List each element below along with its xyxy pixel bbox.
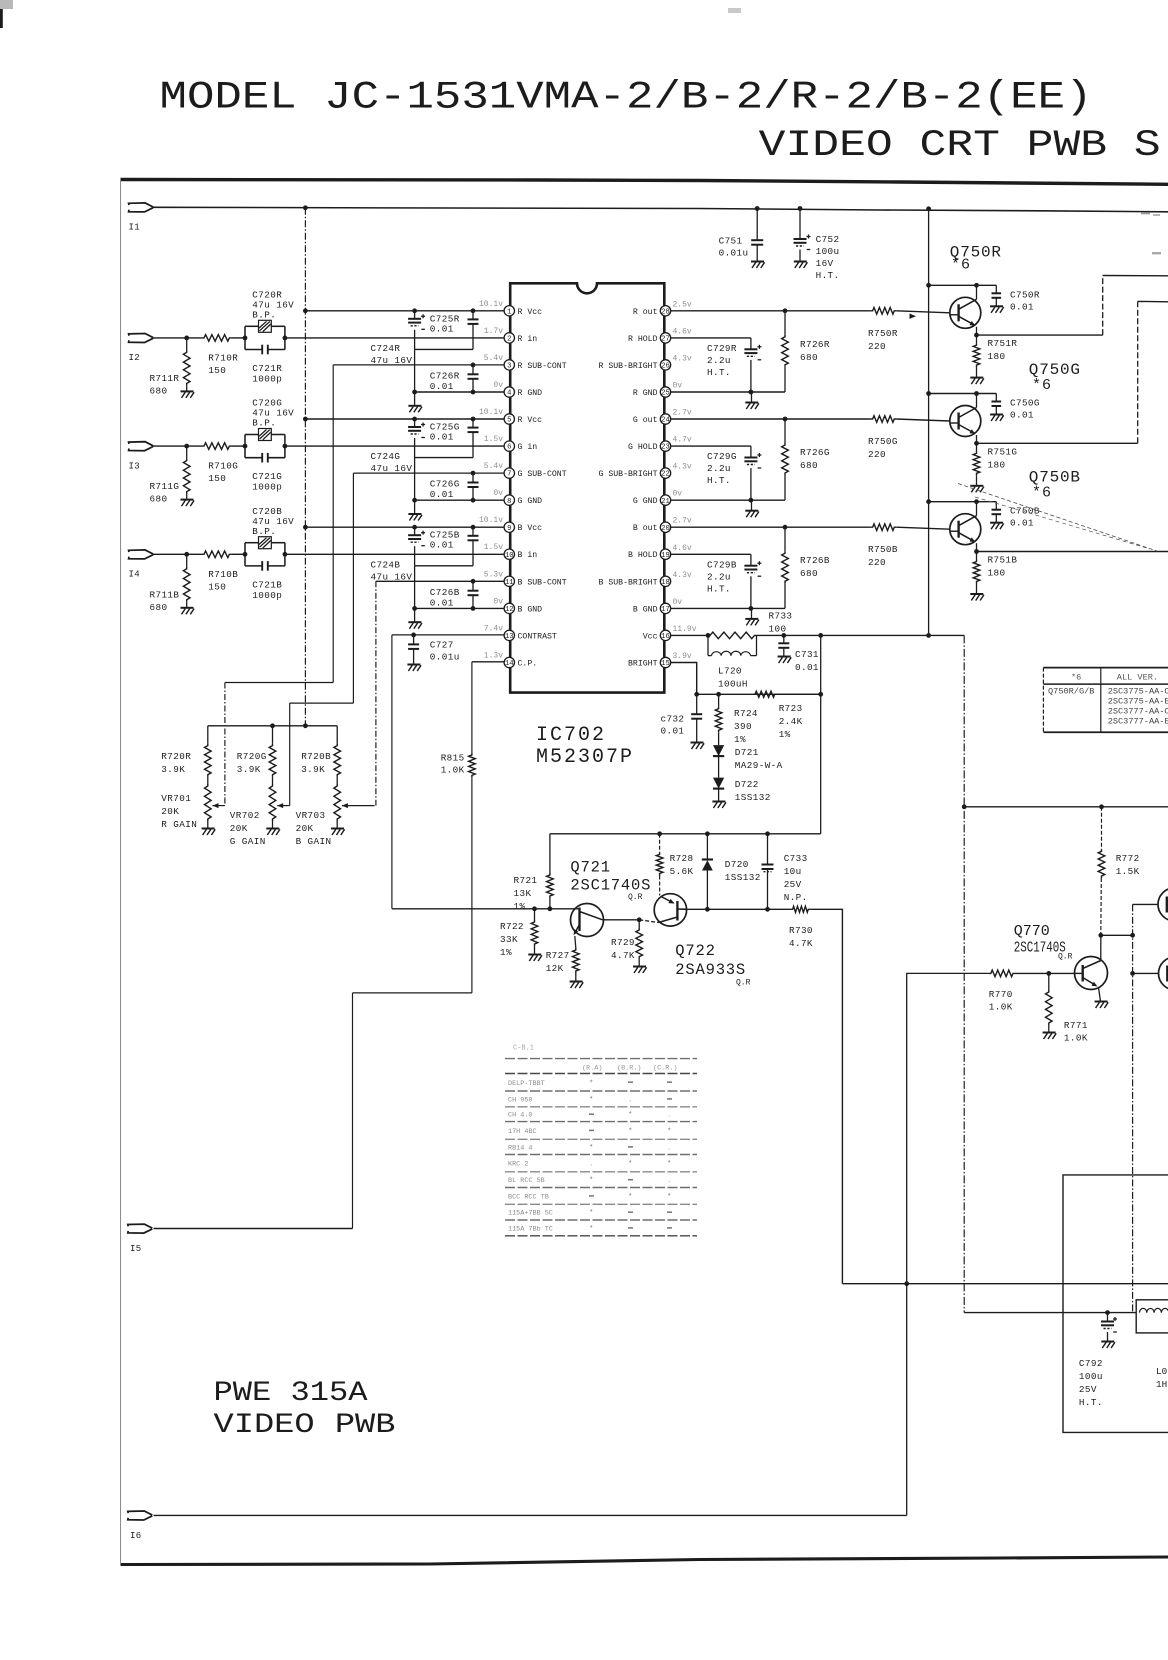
label C750R: [1010, 289, 1040, 312]
label C724R: [371, 343, 413, 366]
svg-text:R720R: R720R: [161, 751, 191, 762]
svg-text:20K: 20K: [230, 823, 248, 834]
wire Q770 input: [907, 973, 989, 1283]
svg-text:R710R: R710R: [208, 352, 238, 363]
svg-text:4.3v: 4.3v: [673, 354, 692, 363]
svg-text:100uH: 100uH: [718, 679, 748, 690]
pin 4 R GND: [504, 387, 514, 398]
voltage label pin13: [484, 624, 503, 633]
svg-text:5.4v: 5.4v: [484, 462, 503, 471]
wire C.P. horizontal: [353, 992, 472, 994]
wire I5: [154, 1228, 353, 1230]
junction I1/C752: [798, 206, 803, 211]
junction Vcc/heater rail: [962, 804, 967, 809]
table cell 2SC3775-AA-E: [1108, 697, 1168, 707]
svg-text:150: 150: [208, 365, 226, 376]
bottom border line: [121, 1557, 1168, 1565]
svg-text:R726B: R726B: [800, 555, 830, 566]
ground G output: [745, 511, 759, 518]
pin 10 B in: [504, 549, 514, 560]
svg-text:*: *: [628, 1112, 633, 1120]
svg-text:R GND: R GND: [633, 389, 658, 398]
svg-text:C-B.1: C-B.1: [513, 1045, 534, 1053]
svg-text:R750R: R750R: [868, 328, 898, 339]
wire R node to gnd pin: [414, 349, 416, 392]
svg-text:D721: D721: [735, 747, 759, 758]
svg-text:(R.A): (R.A): [582, 1065, 602, 1073]
svg-text:C724G: C724G: [371, 451, 401, 462]
wire I3 input: [153, 445, 202, 447]
ground R751B: [970, 594, 984, 601]
svg-text:20: 20: [661, 525, 670, 533]
svg-text:6: 6: [507, 444, 511, 452]
pin label B GND: [633, 605, 658, 614]
pin 1 R Vcc: [504, 306, 514, 317]
svg-text:1SS132: 1SS132: [725, 872, 761, 883]
junction C792: [1105, 1310, 1110, 1315]
svg-text:B SUB-CONT: B SUB-CONT: [518, 578, 567, 587]
resistor R710G: [202, 443, 231, 450]
transistor Q750R: [950, 285, 981, 335]
capacitor C726B: [468, 581, 479, 608]
svg-text:0.01: 0.01: [1010, 410, 1034, 421]
svg-text:100u: 100u: [816, 246, 840, 257]
junction rail/R728: [657, 831, 662, 836]
resistor R750R: [871, 308, 897, 315]
voltage label pin28: [673, 300, 692, 309]
svg-text:*: *: [589, 1225, 594, 1233]
svg-text:R750G: R750G: [868, 436, 898, 447]
svg-text:*: *: [667, 1193, 672, 1201]
svg-text:B SUB-BRIGHT: B SUB-BRIGHT: [599, 578, 658, 587]
wire G gnd stub: [414, 500, 416, 514]
connector I4: [129, 550, 154, 559]
svg-text:I6: I6: [130, 1531, 141, 1541]
junction C729G bottom: [749, 498, 754, 503]
svg-text:25: 25: [661, 390, 670, 398]
voltage label pin25: [673, 382, 683, 391]
svg-text:H.T.: H.T.: [816, 270, 840, 281]
connector I2: [129, 334, 154, 343]
pin label G SUB-BRIGHT: [599, 470, 658, 479]
label R751R: [988, 338, 1018, 362]
voltage label pin11: [484, 570, 503, 579]
label R711B: [150, 589, 180, 613]
svg-text:G SUB-CONT: G SUB-CONT: [518, 470, 567, 479]
svg-text:2.2u: 2.2u: [707, 355, 731, 366]
svg-text:9: 9: [507, 525, 511, 533]
pin 16 Vcc: [660, 630, 670, 641]
label I6: [130, 1531, 141, 1541]
wire R Vcc pin feed: [305, 310, 504, 312]
capacitor C724G electrolytic: [408, 419, 425, 458]
wire R750B to base: [896, 527, 950, 529]
svg-text:VIDEO PWB: VIDEO PWB: [214, 1410, 396, 1441]
svg-text:1%: 1%: [514, 901, 526, 912]
svg-text:BCC RCC TB: BCC RCC TB: [508, 1193, 549, 1201]
svg-text:*: *: [589, 1080, 594, 1088]
svg-text:100u: 100u: [1079, 1371, 1103, 1382]
label C729G: [707, 451, 737, 486]
label VR701: [161, 793, 197, 830]
svg-text:1H: 1H: [1156, 1379, 1167, 1390]
voltage label pin1: [479, 300, 503, 309]
junction R711R tap: [184, 336, 189, 341]
svg-text:2SC3777-AA-O: 2SC3777-AA-O: [1108, 707, 1168, 717]
wire to upper CRT transistor: [1133, 903, 1159, 905]
voltage label pin16: [673, 625, 697, 634]
label R751G: [988, 446, 1018, 470]
junction riser/GVcc: [303, 417, 308, 422]
ground R729: [633, 967, 647, 974]
label Q721: [570, 859, 610, 877]
svg-text:4.7K: 4.7K: [789, 938, 813, 949]
svg-text:0v: 0v: [493, 381, 503, 390]
pin 26 R SUB-BRIGHT: [660, 360, 670, 371]
label PWE 315A: [214, 1378, 368, 1409]
label R720B: [301, 751, 331, 775]
svg-text:C731: C731: [795, 649, 819, 660]
svg-text:0.01: 0.01: [1010, 518, 1034, 529]
wire I6 riser: [906, 1284, 908, 1516]
wire I2 input: [153, 337, 202, 339]
svg-text:26: 26: [661, 363, 670, 371]
potentiometer VR703: [334, 784, 341, 829]
top border line: [121, 180, 1168, 185]
svg-text:3: 3: [507, 363, 511, 371]
voltage label pin12: [493, 597, 503, 606]
svg-text:*: *: [667, 1161, 672, 1169]
wire C.P. pin14: [472, 661, 504, 663]
capacitor C720R/C721R parallel pair: [245, 320, 285, 354]
svg-text:12: 12: [505, 606, 514, 614]
transistor Q721: [571, 904, 604, 949]
pin 24 G out: [660, 414, 670, 425]
op-amp IC702 M52307P body: [510, 283, 664, 692]
wire R SUB-CONT horiz: [225, 682, 333, 684]
wire R in to pin: [285, 337, 504, 339]
pin label CONTRAST: [518, 632, 557, 641]
junction C725B top: [471, 525, 476, 530]
svg-text:24: 24: [661, 417, 670, 425]
resistor R730: [791, 906, 811, 912]
label C721G: [252, 471, 282, 493]
svg-text:R SUB-BRIGHT: R SUB-BRIGHT: [599, 362, 658, 371]
junction emitter Q750R: [974, 333, 979, 338]
junction box right G: [283, 444, 288, 449]
pin label C.P.: [518, 660, 538, 669]
svg-text:C792: C792: [1079, 1358, 1103, 1369]
junction R726B top: [783, 525, 788, 530]
wire KG output: [977, 301, 1168, 443]
wiper VR703: [342, 803, 375, 808]
pin 7 G SUB-CONT: [504, 468, 514, 479]
label R751B: [988, 555, 1018, 579]
svg-text:L720: L720: [718, 666, 742, 677]
wiper VR702: [277, 803, 290, 808]
svg-text:R Vcc: R Vcc: [518, 416, 543, 425]
svg-text:H.T.: H.T.: [1079, 1397, 1103, 1408]
svg-text:H.T.: H.T.: [707, 475, 731, 486]
svg-text:5: 5: [507, 417, 511, 425]
svg-text:Q770: Q770: [1014, 924, 1050, 940]
wire G in to pin: [285, 445, 504, 447]
label R711G: [150, 481, 180, 505]
svg-text:0.01u: 0.01u: [719, 248, 749, 259]
wire R SUB-CONT pin3: [333, 364, 504, 366]
junction C724B top: [412, 525, 417, 530]
voltage label pin6: [484, 435, 503, 444]
junction L720 left: [706, 633, 711, 638]
junction emitter Q750B: [974, 549, 979, 554]
resistor R721: [547, 834, 554, 909]
wire B decouple node: [415, 565, 473, 567]
svg-text:3.9K: 3.9K: [301, 764, 325, 775]
svg-text:1.0K: 1.0K: [441, 765, 465, 776]
svg-text:1.0K: 1.0K: [989, 1002, 1013, 1013]
voltage label pin26: [673, 354, 692, 363]
svg-text:18: 18: [661, 579, 670, 587]
svg-text:10.1v: 10.1v: [479, 408, 503, 417]
junction riser/RVcc: [303, 308, 308, 313]
label c732: [661, 714, 685, 737]
svg-text:1SS132: 1SS132: [735, 792, 771, 803]
wire KB output: [977, 551, 1168, 553]
capacitor C751: [751, 209, 763, 262]
pin 17 B GND: [660, 603, 670, 614]
wire drive vertical x=1132.6: [1132, 904, 1134, 1312]
wire filament feed y=1312.6: [964, 1312, 1136, 1314]
svg-text:19: 19: [661, 552, 670, 560]
label D722: [735, 779, 771, 803]
label C729R: [707, 343, 737, 378]
voltage label pin14: [484, 652, 503, 661]
label R733: [769, 611, 793, 635]
svg-text:KRC 2: KRC 2: [508, 1161, 528, 1169]
transistor edge lower: [1159, 957, 1168, 990]
pin label B HOLD: [628, 551, 658, 560]
resistor R727: [573, 948, 580, 982]
junction B gnd-wire left: [412, 606, 417, 611]
svg-text:C750R: C750R: [1010, 289, 1040, 300]
label C792: [1079, 1358, 1103, 1408]
svg-text:VR702: VR702: [230, 810, 260, 821]
svg-text:Q750R/G/B: Q750R/G/B: [1048, 687, 1094, 697]
wire BRIGHT node: [697, 693, 821, 695]
svg-text:*6: *6: [1032, 485, 1052, 502]
junction C726R bottom: [471, 390, 476, 395]
pin label G GND: [518, 497, 543, 506]
resistor R751R: [973, 335, 980, 378]
ground C752: [794, 262, 808, 269]
svg-text:G out: G out: [633, 416, 658, 425]
capacitor c732: [691, 694, 702, 742]
junction box left R: [243, 336, 248, 341]
label C725B: [430, 530, 460, 551]
svg-text:Vcc: Vcc: [643, 632, 658, 641]
junction drive/base2: [1130, 971, 1135, 976]
wire main Vcc vertical x=928.6: [928, 209, 930, 636]
label C721B: [252, 579, 282, 601]
svg-text:R733: R733: [769, 611, 793, 622]
junction c732: [694, 692, 699, 697]
wire G out: [671, 418, 871, 420]
ground R711B: [181, 608, 195, 615]
svg-text:8: 8: [507, 498, 511, 506]
label R726R: [800, 339, 830, 363]
ground VR701: [202, 829, 216, 836]
svg-text:G HOLD: G HOLD: [628, 443, 658, 452]
svg-text:1000p: 1000p: [252, 373, 282, 384]
ground R output: [745, 403, 759, 410]
junction collector Q750R: [974, 283, 979, 288]
capacitor C750R: [992, 285, 1002, 306]
pin 15 BRIGHT: [660, 657, 670, 668]
junction R711B tap: [184, 552, 189, 557]
svg-text:R HOLD: R HOLD: [628, 335, 658, 344]
svg-text:0v: 0v: [673, 382, 683, 391]
svg-text:G SUB-BRIGHT: G SUB-BRIGHT: [599, 470, 658, 479]
pin 13 CONTRAST: [504, 630, 514, 641]
junction G gnd-wire left: [412, 498, 417, 503]
svg-text:(C.R.): (C.R.): [653, 1065, 677, 1073]
wire Vcc riser x=305.4: [304, 208, 306, 726]
svg-text:220: 220: [868, 449, 886, 460]
voltage label pin17: [673, 598, 683, 607]
potentiometer VR701: [205, 784, 212, 829]
resistor R720B: [334, 726, 341, 784]
wire C.P. riser to I5: [352, 993, 354, 1229]
svg-text:180: 180: [988, 568, 1006, 579]
capacitor C750G: [992, 394, 1002, 415]
junction R723/Vcc branch: [818, 692, 823, 697]
left border line: [120, 181, 122, 1563]
wire B SUB-CONT pin11: [376, 580, 504, 582]
svg-text:*: *: [589, 1096, 594, 1104]
svg-text:.: .: [667, 1112, 672, 1120]
label R726G: [800, 447, 830, 471]
label R729: [611, 937, 635, 961]
annotation diagonal line 2: [975, 497, 1150, 549]
svg-text:H.T.: H.T.: [707, 583, 731, 594]
svg-text:25V: 25V: [1079, 1384, 1097, 1395]
svg-text:D722: D722: [735, 779, 759, 790]
label R710G: [208, 461, 238, 485]
svg-text:C724B: C724B: [371, 559, 401, 570]
svg-text:.: .: [667, 1177, 672, 1185]
wire Q722 collector: [687, 908, 791, 910]
svg-text:R711G: R711G: [150, 481, 180, 492]
table Q750 versions box: [1043, 668, 1168, 733]
svg-text:0.01: 0.01: [661, 726, 685, 737]
voltage label pin24: [673, 409, 692, 418]
svg-text:.: .: [667, 1144, 672, 1152]
label R750R: [868, 328, 898, 352]
svg-text:*: *: [589, 1210, 594, 1218]
ground C750B: [990, 523, 1004, 530]
capacitor C720B/C721B parallel pair: [245, 537, 285, 571]
capacitor C726G: [468, 473, 479, 500]
label I2: [129, 353, 140, 363]
label R750G: [868, 436, 898, 460]
junction collector Q750G: [974, 391, 979, 396]
wire B out: [671, 526, 871, 528]
svg-text:PWE 315A: PWE 315A: [214, 1378, 368, 1409]
wire Q722 base link: [639, 920, 658, 923]
pin label R Vcc: [518, 416, 543, 425]
svg-text:R out: R out: [633, 308, 658, 317]
svg-text:N.P.: N.P.: [784, 892, 808, 903]
svg-text:180: 180: [988, 459, 1006, 470]
pin label G SUB-CONT: [518, 470, 567, 479]
pin label B GND: [518, 605, 543, 614]
svg-text:10.1v: 10.1v: [479, 516, 503, 525]
svg-text:3.9K: 3.9K: [161, 764, 185, 775]
transistor Q750G: [950, 394, 981, 444]
wire Q750B collector feed: [929, 501, 997, 503]
svg-text:0v: 0v: [673, 598, 683, 607]
svg-text:5.4v: 5.4v: [484, 354, 503, 363]
svg-text:20K: 20K: [161, 806, 179, 817]
label Q770: [1014, 924, 1050, 940]
wire R750G to base: [896, 419, 950, 421]
junction collector seg left: [1098, 933, 1103, 938]
svg-text:27: 27: [661, 336, 670, 344]
capacitor C792 electrolytic: [1101, 1313, 1117, 1342]
capacitor C720G/C721G parallel pair: [245, 429, 285, 463]
label C751: [719, 236, 749, 259]
pin 12 B GND: [504, 603, 514, 614]
pin label G GND: [633, 497, 658, 506]
svg-text:G in: G in: [518, 442, 538, 452]
wire G decouple node: [415, 457, 473, 459]
ground G channel: [408, 514, 422, 521]
svg-text:I5: I5: [130, 1244, 141, 1254]
wire Vcc rail y=833.8: [550, 833, 821, 835]
svg-text:L0: L0: [1156, 1366, 1167, 1377]
wire collector segment: [1101, 934, 1133, 936]
svg-text:1: 1: [507, 308, 511, 316]
svg-text:680: 680: [800, 568, 818, 579]
svg-text:680: 680: [150, 602, 168, 613]
junction I1/riser305: [303, 205, 308, 210]
junction C725R top: [471, 308, 476, 313]
label R815: [441, 753, 465, 776]
resistor R726R: [782, 311, 789, 392]
junction emitter Q750G: [974, 441, 979, 446]
svg-text:220: 220: [868, 341, 886, 352]
svg-text:R SUB-CONT: R SUB-CONT: [518, 362, 567, 371]
svg-text:C752: C752: [816, 234, 840, 245]
resistor R728: [656, 834, 663, 896]
wire G node to gnd pin: [414, 458, 416, 501]
wire R730 output: [810, 909, 842, 1283]
pin 20 B out: [660, 522, 670, 533]
wire G SUB-CONT riser to VR702: [289, 703, 291, 806]
svg-text:*: *: [628, 1193, 633, 1201]
junction box left G: [243, 444, 248, 449]
svg-text:C729B: C729B: [707, 559, 737, 570]
svg-text:13: 13: [505, 633, 514, 641]
svg-text:B GAIN: B GAIN: [296, 836, 332, 847]
svg-text:C721B: C721B: [252, 579, 282, 590]
svg-text:10u: 10u: [784, 866, 802, 877]
ground VR703: [331, 829, 345, 836]
capacitor C727: [408, 635, 419, 665]
svg-text:0.01: 0.01: [430, 540, 454, 551]
wire G gnd stub right: [751, 500, 753, 511]
label L790: [1156, 1366, 1167, 1390]
